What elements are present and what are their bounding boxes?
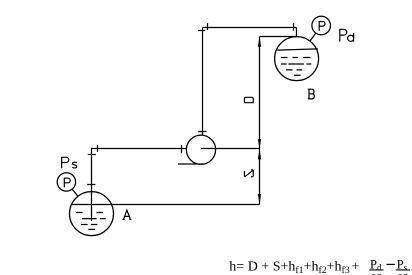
tank B liquid level line: [277, 49, 318, 50]
svg-text:ρg: ρg: [371, 271, 382, 275]
formula h = D + S + hf1 + hf2 + hf3 + Pd/rho g - Ps/rho g: [229, 258, 410, 275]
flange tick on tank A riser: [87, 184, 95, 186]
discharge horizontal run to tank B: [203, 27, 297, 29]
flange tick right of top corner: [207, 23, 209, 30]
arrow D top: [258, 37, 261, 47]
flange tick on suction riser below corner: [88, 154, 96, 156]
minus sign: [386, 264, 394, 265]
flange tick on discharge riser below top corner: [198, 30, 205, 32]
label Pd: [340, 29, 347, 41]
tank B inlet drop pipe: [296, 28, 298, 37]
label Ps: [62, 157, 69, 168]
discharge riser from pump to top run: [202, 28, 204, 136]
dimension label S (rotated): [244, 170, 253, 177]
dimension line D (vertical): [259, 37, 261, 149]
tank B vessel: [275, 37, 319, 81]
fraction Ps bar: [396, 269, 410, 270]
flange tick on discharge riser near pump: [198, 131, 206, 133]
arrow D bottom: [258, 139, 261, 148]
gauge B connecting line: [310, 33, 316, 41]
suction pipe riser inside tank A: [91, 149, 93, 222]
arrow S bottom: [258, 194, 261, 204]
tank B liquid dashes: [281, 58, 311, 76]
label B: [308, 89, 315, 99]
arrow S top: [258, 149, 261, 159]
dimension line S (vertical): [259, 149, 261, 205]
fraction Pd bar: [369, 269, 383, 270]
gauge A letter P: [64, 178, 70, 187]
svg-text:ρg: ρg: [398, 271, 409, 275]
extension line at tank B inlet level: [260, 36, 298, 38]
pump centerline out to dimension line: [201, 148, 260, 150]
dimension label D (rotated): [244, 97, 253, 103]
pump base: [178, 163, 206, 165]
pump U1 casing: [186, 135, 215, 164]
tank A vessel: [70, 192, 114, 236]
flange tick near pump suction inlet: [181, 145, 183, 153]
gauge A connecting line: [72, 189, 78, 196]
svg-text:h= D + S+hf1+hf2+hf3+: h= D + S+hf1+hf2+hf3+: [229, 259, 359, 275]
suction pipe horizontal run to pump: [91, 148, 187, 150]
flange tick near tank B end of top run: [293, 23, 295, 31]
tank A liquid dashes: [76, 213, 106, 230]
gauge B letter P: [319, 22, 325, 31]
label A: [122, 210, 131, 219]
pressure gauge on tank B: [312, 16, 331, 35]
pressure gauge on tank A: [57, 173, 75, 191]
tank A liquid level line + S dimension extension line: [71, 204, 259, 206]
flange tick on suction horizontal near corner: [97, 145, 99, 152]
